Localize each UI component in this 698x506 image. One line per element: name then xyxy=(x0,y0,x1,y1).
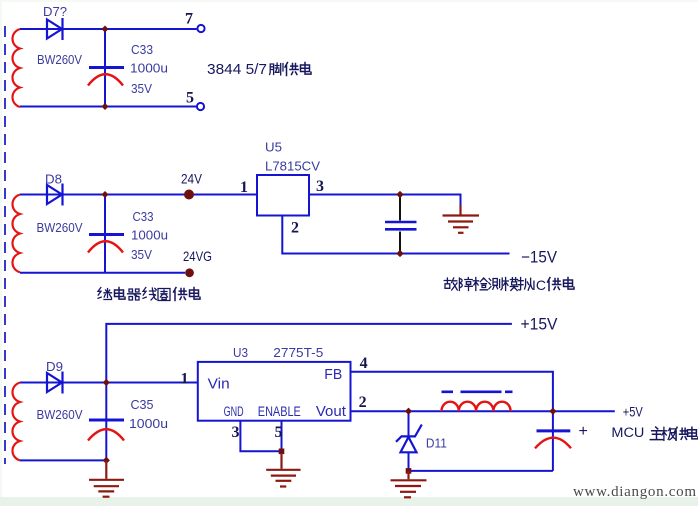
svg-text:www.diangon.com: www.diangon.com xyxy=(573,484,696,500)
svg-text:D9: D9 xyxy=(46,359,63,374)
svg-text:Vin: Vin xyxy=(208,376,230,393)
svg-text:BW260V: BW260V xyxy=(37,407,83,422)
svg-text:GND: GND xyxy=(224,404,244,419)
svg-text:D8: D8 xyxy=(45,172,62,187)
svg-text:1000u: 1000u xyxy=(130,61,168,76)
svg-text:FB: FB xyxy=(324,366,342,383)
svg-text:7: 7 xyxy=(185,11,193,28)
svg-text:3844 5/7: 3844 5/7 xyxy=(207,62,267,78)
svg-text:2775T-5: 2775T-5 xyxy=(273,345,323,360)
svg-text:+5V: +5V xyxy=(623,405,643,420)
svg-text:35V: 35V xyxy=(131,247,152,262)
svg-text:BW260V: BW260V xyxy=(37,220,83,235)
svg-text:C33: C33 xyxy=(131,42,153,57)
svg-text:1: 1 xyxy=(240,179,248,196)
svg-text:1000u: 1000u xyxy=(131,228,168,243)
svg-text:U5: U5 xyxy=(265,140,282,155)
svg-text:3: 3 xyxy=(316,178,324,195)
svg-text:ENABLE: ENABLE xyxy=(258,404,301,419)
svg-text:L7815CV: L7815CV xyxy=(265,159,320,174)
svg-text:Vout: Vout xyxy=(316,404,346,420)
svg-text:2: 2 xyxy=(359,394,367,411)
svg-text:1: 1 xyxy=(181,371,189,388)
svg-text:D11: D11 xyxy=(426,436,447,451)
svg-text:U3: U3 xyxy=(233,345,248,360)
svg-text:C33: C33 xyxy=(133,209,154,224)
svg-text:MCU: MCU xyxy=(611,425,644,440)
svg-text:IC: IC xyxy=(532,277,546,293)
svg-text:35V: 35V xyxy=(131,81,152,96)
svg-text:5: 5 xyxy=(186,90,194,107)
svg-text:+15V: +15V xyxy=(521,316,558,334)
svg-text:24V: 24V xyxy=(181,171,203,187)
svg-text:BW260V: BW260V xyxy=(37,52,82,67)
svg-text:C35: C35 xyxy=(131,397,154,412)
svg-text:−15V: −15V xyxy=(521,249,557,267)
svg-text:4: 4 xyxy=(360,355,368,372)
svg-text:+: + xyxy=(579,423,588,440)
svg-text:3: 3 xyxy=(232,424,240,441)
svg-text:24VG: 24VG xyxy=(183,248,212,264)
svg-text:2: 2 xyxy=(291,220,299,237)
svg-text:D7?: D7? xyxy=(43,4,67,19)
svg-text:1000u: 1000u xyxy=(129,416,168,431)
svg-text:5: 5 xyxy=(275,424,283,441)
